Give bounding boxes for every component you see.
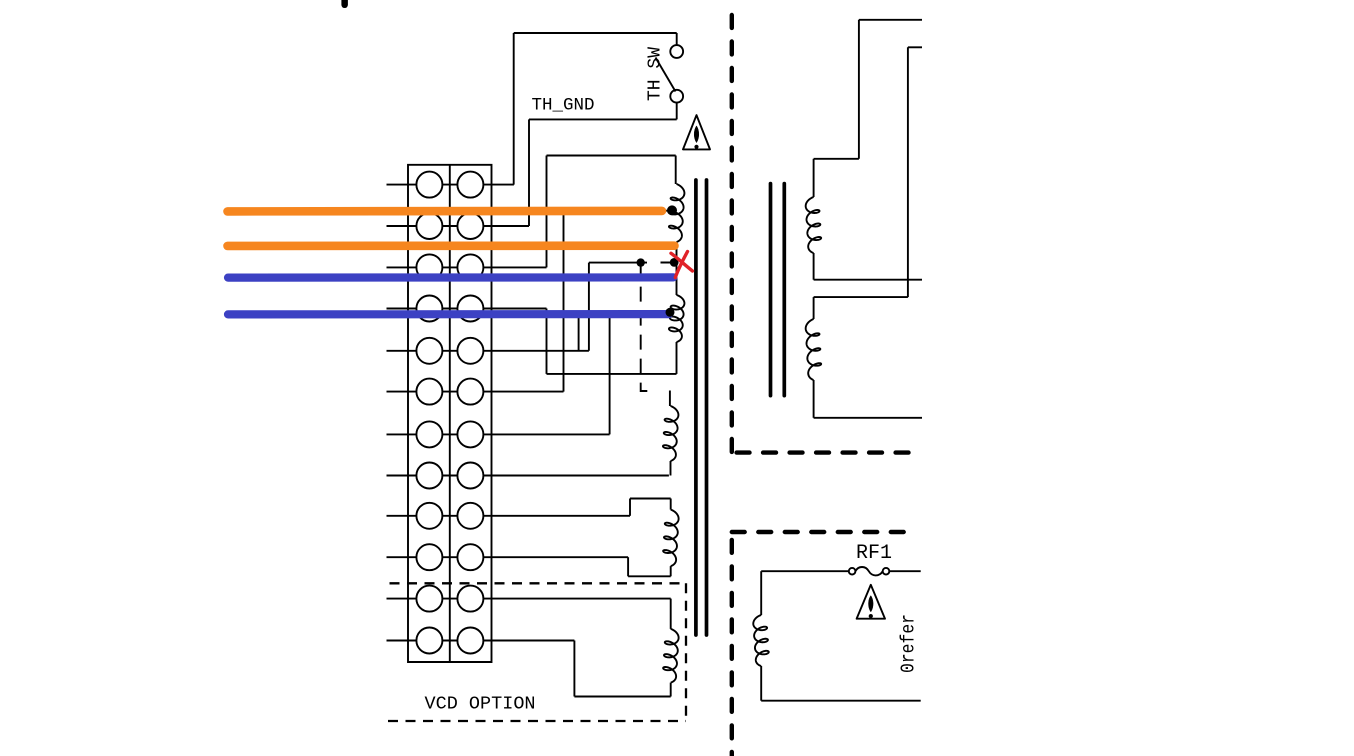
svg-text:TH_GND: TH_GND — [532, 96, 595, 116]
svg-text:TH SW: TH SW — [646, 47, 666, 101]
svg-text:VCD OPTION: VCD OPTION — [425, 694, 536, 715]
svg-text:0refer: 0refer — [898, 614, 920, 673]
svg-text:RF1: RF1 — [856, 542, 892, 565]
